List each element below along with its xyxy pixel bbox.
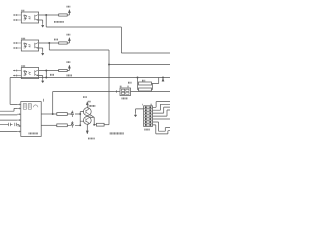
wire: drop and bus to right bbox=[46, 15, 170, 53]
wire resistor to vcc bbox=[67, 13, 69, 15]
wire to long vertical bbox=[104, 124, 109, 126]
wire bus to right edge bbox=[109, 64, 170, 66]
junction dot output bbox=[93, 124, 95, 126]
ground arrow bbox=[42, 79, 44, 83]
optocoupler OK1 light arrows bbox=[28, 16, 30, 19]
transistor Q1 (NPN) bbox=[83, 108, 91, 116]
write button resistor R6 bbox=[94, 124, 96, 126]
wire down from bus bbox=[137, 78, 139, 90]
net label mid bbox=[67, 74, 73, 76]
capacitor C2 bbox=[15, 123, 21, 126]
junction dot clock tap bbox=[52, 113, 54, 115]
wire: drop and long bus right to edge bbox=[10, 71, 170, 78]
emitter wire to ground bbox=[39, 20, 43, 24]
left ground wire bbox=[136, 109, 144, 114]
wire joining right ends bbox=[138, 78, 159, 90]
right wrap wire 5 bbox=[153, 118, 171, 120]
optocoupler OK2 LED bbox=[24, 43, 27, 48]
vcc label bbox=[67, 34, 71, 36]
vcc label bbox=[67, 6, 71, 8]
IC internal gate glyphs bbox=[23, 104, 31, 110]
oscillator inner squares bbox=[122, 89, 125, 91]
pin tick marks bbox=[18, 104, 20, 133]
capacitor C1 bbox=[0, 123, 13, 126]
vcc label mid bbox=[83, 96, 87, 98]
base rail bbox=[75, 112, 84, 126]
diode D1 bbox=[67, 111, 73, 117]
caption (c) Write Button bbox=[110, 132, 124, 134]
transistor Q2 (PNP) bbox=[83, 117, 91, 125]
clock wire up to oscillator bbox=[53, 92, 115, 115]
junction dot bbox=[45, 70, 47, 72]
connector row dividers bbox=[144, 109, 153, 124]
designator OK1 bbox=[21, 10, 24, 12]
resistor R7 bbox=[139, 82, 152, 85]
input pin 2 bbox=[13, 75, 21, 77]
base resistor R5 bbox=[57, 124, 68, 127]
pin stub top bbox=[42, 99, 44, 102]
optocoupler OK3 body bbox=[21, 68, 38, 79]
connector pin pads bbox=[145, 106, 147, 108]
label bbox=[128, 82, 132, 84]
pull-up resistor R3 bbox=[59, 69, 67, 71]
ground arrow bbox=[42, 24, 44, 28]
left pin bbox=[115, 90, 120, 92]
base resistor R4 bbox=[57, 113, 68, 116]
ground arrow bbox=[42, 52, 44, 56]
designator OK2 bbox=[21, 38, 25, 40]
optocoupler OK2 body bbox=[21, 40, 38, 51]
emitter wire to ground bbox=[39, 76, 43, 80]
pin labels bbox=[120, 85, 122, 87]
pin number labels bbox=[141, 104, 144, 106]
value label bbox=[88, 101, 91, 103]
input pin 1 bbox=[13, 42, 21, 44]
collector wire bbox=[39, 42, 59, 44]
optocoupler OK2 phototransistor bbox=[35, 43, 39, 48]
vcc arrow bbox=[68, 38, 70, 41]
connector SV1 body bbox=[144, 106, 153, 127]
optocoupler OK3 phototransistor bbox=[35, 70, 39, 75]
designator OK3 bbox=[21, 65, 25, 67]
resistor R8 bbox=[139, 88, 152, 91]
emitter join wires bbox=[90, 115, 94, 125]
wire from left edge 1 bbox=[0, 108, 17, 111]
optocoupler OK2 light arrows bbox=[28, 44, 30, 47]
diode D2 bbox=[67, 121, 73, 127]
connector label bbox=[144, 129, 150, 131]
vcc arrow mid bbox=[86, 102, 88, 105]
vcc arrow right (under rail) bbox=[162, 78, 164, 81]
junction dot bus3 bbox=[45, 77, 47, 79]
emitter wire to ground bbox=[39, 48, 43, 52]
IC U1 body bbox=[21, 102, 41, 137]
right wrap wire 3 bbox=[153, 107, 171, 113]
wire resistor to vcc bbox=[67, 41, 69, 43]
Q1 collector to vcc bbox=[87, 105, 89, 109]
net label bbox=[54, 39, 58, 41]
junction dot on bus bbox=[162, 77, 164, 79]
optocoupler OK1 phototransistor bbox=[35, 15, 39, 20]
optocoupler OK1 body bbox=[21, 12, 38, 23]
oscillator Q3 body bbox=[120, 88, 131, 96]
input pin 1 bbox=[13, 14, 21, 16]
wire IC out 2 bbox=[41, 124, 57, 126]
net label bbox=[54, 21, 64, 23]
Q2 label bbox=[88, 138, 95, 140]
oscillator label bbox=[122, 97, 128, 99]
vcc arrow bbox=[68, 65, 70, 68]
collector wire bbox=[39, 70, 59, 72]
input pin 2 bbox=[13, 47, 21, 49]
down arrow bbox=[86, 131, 88, 134]
pull-up resistor R2 bbox=[59, 42, 67, 44]
junction dot bbox=[45, 14, 47, 16]
wire top loop bbox=[10, 78, 17, 105]
right wrap hook 7 bbox=[153, 125, 171, 134]
collector wire bbox=[39, 14, 59, 16]
wire: drop and bus to right bbox=[49, 43, 109, 65]
pull-up resistor R1 bbox=[59, 14, 67, 16]
junction dots bbox=[79, 113, 81, 115]
Q1 label bbox=[89, 105, 96, 107]
right wrap wire 2 bbox=[153, 104, 171, 110]
junction dot bbox=[137, 77, 139, 79]
input pin 1 bbox=[13, 70, 21, 72]
input pin 2 bbox=[13, 19, 21, 21]
net label bbox=[50, 74, 54, 76]
optocoupler OK3 light arrows bbox=[28, 72, 30, 75]
wire from left edge 2 bbox=[0, 115, 17, 120]
right pin wire to edge bbox=[131, 91, 171, 93]
Q2 collector to minus rail bbox=[87, 123, 89, 131]
optocoupler OK1 LED bbox=[24, 15, 27, 20]
value labels bbox=[142, 80, 145, 82]
ground arrow bbox=[134, 113, 136, 116]
IC internal arc glyph bbox=[33, 105, 38, 107]
IC part label bbox=[29, 132, 39, 134]
vcc arrow bbox=[68, 10, 70, 13]
wire IC out 1 bbox=[41, 113, 57, 115]
junction dot bbox=[48, 42, 50, 44]
wire left bottom bbox=[0, 131, 17, 133]
right wrap hook 6 bbox=[153, 122, 171, 131]
connector centre line bbox=[147, 106, 149, 127]
vcc label bbox=[67, 61, 71, 63]
long vertical to write button bbox=[108, 65, 110, 125]
optocoupler OK3 LED bbox=[24, 71, 27, 76]
junction dot bus2 bbox=[108, 64, 110, 66]
wire resistor to vcc bbox=[67, 68, 69, 70]
right wrap wire 4 bbox=[153, 110, 171, 116]
right wrap wire 1 bbox=[153, 102, 171, 108]
left pin stubs bbox=[17, 104, 21, 131]
